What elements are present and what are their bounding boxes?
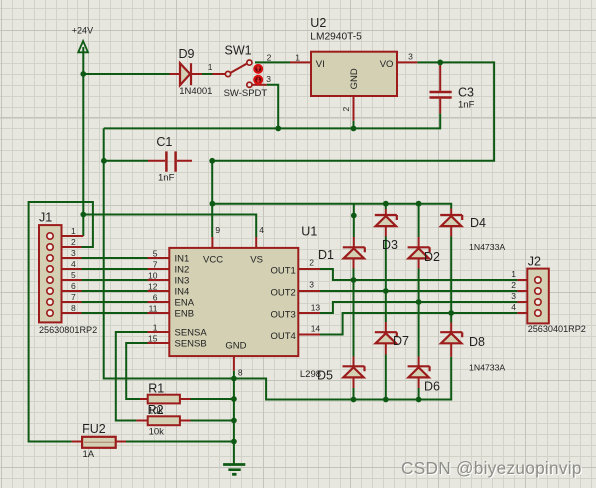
wire D1 cathode link [353, 204, 355, 237]
junction SW3 ground row [275, 125, 281, 131]
svg-text:GND: GND [349, 68, 360, 89]
junction D5 bottom rail [351, 397, 357, 403]
wire 5V rail to diode tops and D4 [212, 204, 451, 209]
svg-text:1: 1 [208, 62, 213, 72]
svg-text:VCC: VCC [203, 255, 223, 266]
J1 pin lead 2 [53, 246, 81, 248]
wire SENSB to R1 left [126, 343, 147, 399]
zener D3 [375, 215, 397, 226]
J1 pin circle 2 [47, 244, 53, 250]
junction VCC rail [210, 201, 216, 207]
switch SW1 pole circle [225, 71, 230, 76]
junction U2 GND row [351, 125, 357, 131]
svg-text:IN1: IN1 [175, 253, 190, 264]
IC U1 L298 body [169, 248, 298, 356]
svg-text:4: 4 [71, 259, 76, 269]
wire U1 GND column down to earth [233, 371, 235, 465]
J2 pin circle 1 [535, 277, 541, 283]
svg-text:OUT4: OUT4 [271, 331, 296, 342]
FU2 leads [72, 441, 126, 443]
J1 pin lead 5 [53, 279, 81, 281]
SW1 pole lead [213, 73, 226, 75]
wire R2 right to ground column [191, 420, 234, 422]
svg-text:1: 1 [511, 269, 516, 279]
svg-text:VO: VO [380, 59, 394, 70]
junction +24V/VS [80, 212, 86, 218]
svg-text:2: 2 [511, 280, 516, 290]
svg-text:9: 9 [215, 225, 220, 235]
U1 pin stub VS pin4 [255, 237, 257, 248]
U1 pin stub OUT3 [298, 312, 320, 314]
svg-text:1: 1 [71, 226, 76, 236]
resistor R2 body [148, 416, 180, 425]
svg-text:7: 7 [153, 260, 158, 270]
junction OUT3/D2-D6 [416, 299, 422, 305]
J1 pin circle 8 [47, 310, 53, 316]
U1 pin stub IN1 [148, 257, 170, 259]
U1 pin stub ENB [148, 312, 170, 314]
fuse FU2 body [82, 437, 116, 448]
diode D9 1N4001 [180, 63, 191, 85]
R2 leads [136, 420, 190, 422]
junction OUT1/D1-D5 [351, 277, 357, 283]
C3 leads [439, 64, 441, 113]
svg-text:U2: U2 [310, 16, 326, 30]
J1 pin circle 7 [47, 299, 53, 305]
svg-text:D4: D4 [470, 216, 486, 230]
wire D1 anode to OUT1 row [353, 269, 355, 281]
svg-text:D6: D6 [424, 380, 440, 394]
J1 pin lead 8 [53, 312, 81, 314]
wire OUT2 to J2 pin2 [320, 290, 517, 292]
svg-text:1A: 1A [83, 449, 95, 460]
wire +24V to D9 anode [83, 73, 169, 75]
U1 pin stub SENSB [148, 342, 170, 344]
junction D7 bottom rail [383, 397, 389, 403]
svg-text:SENSB: SENSB [175, 338, 207, 349]
svg-text:4: 4 [259, 225, 264, 235]
power symbol +24V arrow [78, 41, 88, 52]
wire ground jog to diode bottom rail and D8 anode [234, 357, 451, 400]
svg-text:D1: D1 [318, 248, 334, 262]
junction FU2 right [231, 439, 237, 445]
svg-text:R1: R1 [148, 381, 164, 395]
svg-text:1nF: 1nF [158, 173, 175, 184]
svg-text:D2: D2 [424, 250, 440, 264]
svg-text:10: 10 [148, 271, 158, 281]
svg-text:1N4733A: 1N4733A [469, 362, 505, 372]
junction C3 top [437, 60, 443, 66]
zener D6 [408, 366, 430, 377]
wire D4 anode to OUT4 row [450, 237, 452, 314]
wire OUT4 to J2 pin4 [320, 313, 517, 335]
wire SENSA to R2 left [116, 332, 148, 421]
U1 pin stub OUT2 [298, 290, 320, 292]
J2 pin lead 3 [517, 301, 535, 303]
svg-text:IN4: IN4 [175, 286, 190, 297]
svg-text:1nF: 1nF [458, 100, 475, 111]
SW1 throw3 lead [252, 84, 267, 86]
svg-text:LM2940T-5: LM2940T-5 [310, 32, 362, 43]
D5 stub top and bottom [353, 357, 355, 389]
U2 pin stub GND pin2 [353, 96, 355, 121]
zener D2 [408, 247, 430, 258]
wire J1 pin8 to ENB [82, 312, 148, 314]
switch SW1 throw3 circle [247, 82, 252, 87]
junction D3 top rail [383, 201, 389, 207]
J1 pin lead 4 [53, 268, 81, 270]
svg-text:6: 6 [71, 281, 76, 291]
svg-text:25630401RP2: 25630401RP2 [528, 324, 586, 334]
D9 leads [170, 73, 203, 75]
junction +24V/D9 [80, 71, 86, 77]
svg-text:1N4001: 1N4001 [179, 86, 212, 97]
D1 stub top and bottom [353, 237, 355, 269]
R1 leads [140, 398, 191, 400]
wire +24V vertical rail [82, 47, 84, 236]
D8 stub top and bottom [450, 323, 452, 357]
wire SW1 throw3 down to y128 row [267, 85, 279, 129]
svg-text:D3: D3 [382, 238, 398, 252]
J2 pin lead 1 [517, 279, 535, 281]
svg-text:1: 1 [295, 53, 300, 63]
svg-text:10k: 10k [148, 405, 164, 416]
wire D6 top link [418, 302, 420, 357]
wire VCC column from 5V node down to U1 pin9 [211, 161, 213, 237]
zener D5 [343, 366, 365, 377]
wire J1 pin7 to ENA [82, 301, 148, 303]
capacitor C1 plates [166, 151, 175, 171]
J1 pin circle 4 [47, 266, 53, 272]
wire D2 anode to OUT3 row [418, 269, 420, 303]
svg-text:D9: D9 [179, 47, 195, 61]
J2 pin lead 4 [517, 312, 535, 314]
svg-text:VI: VI [316, 59, 325, 70]
svg-text:2: 2 [341, 107, 351, 112]
zener D7 [375, 332, 397, 343]
wire y128 ground row to C3 bottom [104, 113, 441, 128]
U1 pin stub IN4 [148, 290, 170, 292]
switch SW1 lever [230, 64, 246, 73]
U2 pin stub VO pin3 [397, 61, 417, 63]
wire D8 top link [450, 313, 452, 323]
U1 pin stub IN2 [148, 268, 170, 270]
svg-text:D7: D7 [393, 334, 409, 348]
svg-text:ENA: ENA [175, 297, 195, 308]
J1 pin circle 6 [47, 288, 53, 294]
J1 pin circle 5 [47, 277, 53, 283]
U1 pin stub OUT1 [298, 268, 320, 270]
D2 stub top and bottom [418, 237, 420, 269]
resistor R1 body [148, 395, 180, 404]
wire D5 bottom link [353, 388, 355, 400]
svg-text:3: 3 [511, 291, 516, 301]
svg-text:3: 3 [266, 74, 271, 84]
IC U2 LM2940T-5 body [311, 52, 397, 96]
J1 pin lead 1 [53, 235, 83, 237]
svg-text:IN2: IN2 [175, 264, 190, 275]
zener D8 [440, 332, 462, 343]
junction R1 right [231, 396, 237, 402]
U1 pin stub ENA [148, 301, 170, 303]
svg-text:FU2: FU2 [82, 422, 106, 436]
wire x104 ground rail down to U1 GND row [104, 128, 234, 378]
J1 pin lead 7 [53, 301, 81, 303]
wire J1 pin5 to IN3 [82, 279, 148, 281]
svg-text:IN3: IN3 [175, 275, 190, 286]
wire D6 bottom link [418, 388, 420, 400]
U1 pin stub GND pin8 [233, 356, 235, 371]
wire D7 top link [385, 291, 387, 322]
junction C1 left [101, 158, 107, 164]
wire D7 bottom link [385, 355, 387, 400]
J2 pin circle 2 [535, 288, 541, 294]
D4 stub top and bottom [450, 209, 452, 237]
svg-text:3: 3 [408, 52, 413, 62]
svg-text:+24V: +24V [72, 26, 93, 36]
svg-text:1N4733A: 1N4733A [469, 242, 505, 252]
wire OUT3 to J2 pin3 [320, 302, 517, 313]
wire U2 GND pin to y128 row [353, 121, 355, 129]
junction D6 bottom rail [416, 397, 422, 403]
svg-text:15: 15 [148, 334, 158, 344]
U1 pin stub VCC pin9 [211, 237, 213, 248]
J2 pin lead 2 [517, 290, 535, 292]
svg-text:OUT3: OUT3 [271, 310, 296, 321]
svg-text:6: 6 [153, 293, 158, 303]
svg-text:4: 4 [511, 302, 516, 312]
junction C1 right 5V [209, 158, 215, 164]
svg-text:GND: GND [225, 341, 246, 352]
wire SW1 throw2 to U2 VI [255, 61, 290, 63]
U1 pin stub IN3 [148, 279, 170, 281]
junction OUT4/D4-D8 [448, 310, 454, 316]
svg-text:14: 14 [311, 324, 321, 334]
switch SW1 throw2 circle [247, 60, 252, 65]
D6 stub top and bottom [418, 357, 420, 389]
wire J1 pin2 to FU2 left [29, 202, 93, 442]
svg-text:J1: J1 [39, 211, 52, 225]
svg-text:D8: D8 [469, 335, 485, 349]
J2 pin circle 4 [535, 310, 541, 316]
svg-text:13: 13 [311, 303, 321, 313]
D3 stub top and bottom [385, 209, 387, 237]
wire D5 top link [353, 280, 355, 357]
svg-text:2: 2 [267, 52, 272, 62]
svg-text:U1: U1 [301, 225, 317, 239]
junction OUT2/D3-D7 [383, 288, 389, 294]
zener D1 [343, 247, 365, 258]
wire FU2 right to ground column [126, 441, 234, 443]
D7 stub top and bottom [385, 322, 387, 355]
J1 pin circle 3 [47, 255, 53, 261]
svg-text:SW-SPDT: SW-SPDT [224, 88, 268, 99]
svg-text:C3: C3 [458, 86, 474, 100]
U1 pin stub OUT4 [298, 334, 320, 336]
U2 pin stub VI pin1 [290, 61, 311, 63]
wire J1 pin3 to IN1 [82, 257, 148, 259]
junction R2 right [231, 418, 237, 424]
connector J1 body [39, 225, 62, 322]
junction D1 column [351, 213, 357, 219]
svg-text:3: 3 [71, 248, 76, 258]
svg-text:12: 12 [148, 282, 158, 292]
zener D4 [440, 215, 462, 226]
svg-text:VS: VS [250, 255, 263, 266]
svg-text:2: 2 [309, 258, 314, 268]
junction D2 top rail [416, 201, 422, 207]
wire U2 VO to 5V right rail down and left to C1 [212, 62, 494, 160]
svg-text:J2: J2 [528, 255, 541, 269]
capacitor C3 plates [430, 92, 452, 98]
wire +24V to U1 VS pin4 [83, 215, 256, 238]
wire J1 pin6 to IN4 [82, 290, 148, 292]
svg-text:5: 5 [71, 270, 76, 280]
svg-text:SENSA: SENSA [175, 327, 208, 338]
svg-text:L298: L298 [300, 369, 321, 380]
C1 leads [148, 160, 192, 162]
wire R1 right to ground column [191, 398, 234, 400]
wire J1 pin4 to IN2 [82, 268, 148, 270]
svg-text:3: 3 [309, 280, 314, 290]
ground symbol [223, 463, 245, 466]
svg-text:C1: C1 [156, 135, 172, 149]
svg-text:5: 5 [153, 249, 158, 259]
svg-text:25630801RP2: 25630801RP2 [39, 325, 97, 335]
SW1 state indicator up [253, 64, 263, 74]
svg-text:OUT2: OUT2 [271, 288, 296, 299]
wire D3 cathode link [385, 204, 387, 209]
wire D9 cathode to SW1 pole [202, 73, 213, 75]
wire D3 anode to OUT2 row [385, 237, 387, 292]
svg-text:8: 8 [238, 368, 243, 378]
svg-text:10k: 10k [149, 427, 165, 438]
J2 pin circle 3 [535, 299, 541, 305]
wire OUT1 to J2 pin1 [320, 269, 517, 280]
J1 pin circle 1 [47, 233, 53, 239]
svg-text:1: 1 [153, 323, 158, 333]
svg-text:CSDN @biyezuopinvip: CSDN @biyezuopinvip [401, 458, 582, 478]
junction gnd column jog [231, 376, 237, 382]
svg-text:SW1: SW1 [225, 44, 252, 58]
J1 pin lead 3 [53, 257, 81, 259]
U1 pin stub SENSA [148, 331, 170, 333]
J1 pin lead 6 [53, 290, 81, 292]
wire C1 left to x104 rail [104, 160, 148, 162]
SW1 state indicator down [253, 75, 263, 85]
wire D2 cathode link [418, 204, 420, 237]
svg-text:7: 7 [71, 292, 76, 302]
svg-text:ENB: ENB [175, 308, 195, 319]
svg-text:2: 2 [71, 237, 76, 247]
svg-text:OUT1: OUT1 [271, 266, 296, 277]
svg-text:8: 8 [71, 303, 76, 313]
svg-text:11: 11 [149, 304, 158, 314]
connector J2 body [527, 269, 549, 324]
